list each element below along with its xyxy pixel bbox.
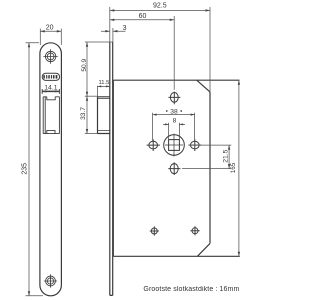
dim 165: [238, 80, 240, 256]
dim 8: [163, 123, 185, 140]
right side hole: [188, 139, 201, 151]
dim 38: [153, 113, 195, 141]
dim 14.1 (latch width): [42, 89, 59, 94]
top oval hole: [168, 92, 180, 105]
bottom screw holes: [150, 226, 200, 235]
svg-text:20: 20: [46, 25, 54, 32]
top screw hole: [43, 49, 57, 63]
faceplate strip side view: [110, 42, 113, 295]
svg-text:8: 8: [173, 117, 177, 124]
latch bolt top step: [47, 97, 55, 100]
latch cutout outer rect: [43, 97, 59, 134]
dim 21.5: [182, 145, 231, 169]
svg-text:11.5: 11.5: [98, 80, 109, 86]
svg-text:Grootste slotkastdikte : 16: Grootste slotkastdikte : 16mm: [143, 286, 239, 293]
faceplate outline (stadium): [40, 43, 62, 296]
svg-text:21.5: 21.5: [223, 149, 230, 162]
dim 92.5: [110, 7, 210, 92]
dim 3: [101, 28, 126, 42]
svg-text:38: 38: [170, 108, 178, 115]
svg-text:92.5: 92.5: [153, 3, 167, 10]
bottom screw hole: [44, 274, 57, 287]
strip top cap + ext for 50.9: [85, 41, 113, 43]
dim 60: [110, 16, 174, 90]
latch bolt bottom step: [47, 130, 55, 133]
svg-text:60: 60: [139, 13, 147, 20]
lower oval hole: [168, 162, 180, 175]
svg-text:14.1: 14.1: [44, 85, 57, 92]
svg-text:165: 165: [230, 162, 237, 173]
follower: [164, 134, 185, 157]
dim 33.7: [85, 96, 98, 133]
dim 235 (left height): [26, 43, 44, 296]
brand label: [42, 73, 59, 80]
dim 20 (top width): [40, 29, 61, 45]
svg-text:33.7: 33.7: [80, 107, 87, 120]
dim 50.9: [85, 42, 98, 96]
latch box side view: [98, 97, 110, 134]
case outline: [112, 80, 114, 256]
dim 11.5: [98, 86, 110, 97]
latch bevel line: [44, 97, 46, 134]
left side hole: [147, 139, 160, 151]
svg-text:3: 3: [123, 25, 127, 32]
svg-text:50.9: 50.9: [81, 58, 88, 71]
svg-text:235: 235: [21, 163, 28, 175]
